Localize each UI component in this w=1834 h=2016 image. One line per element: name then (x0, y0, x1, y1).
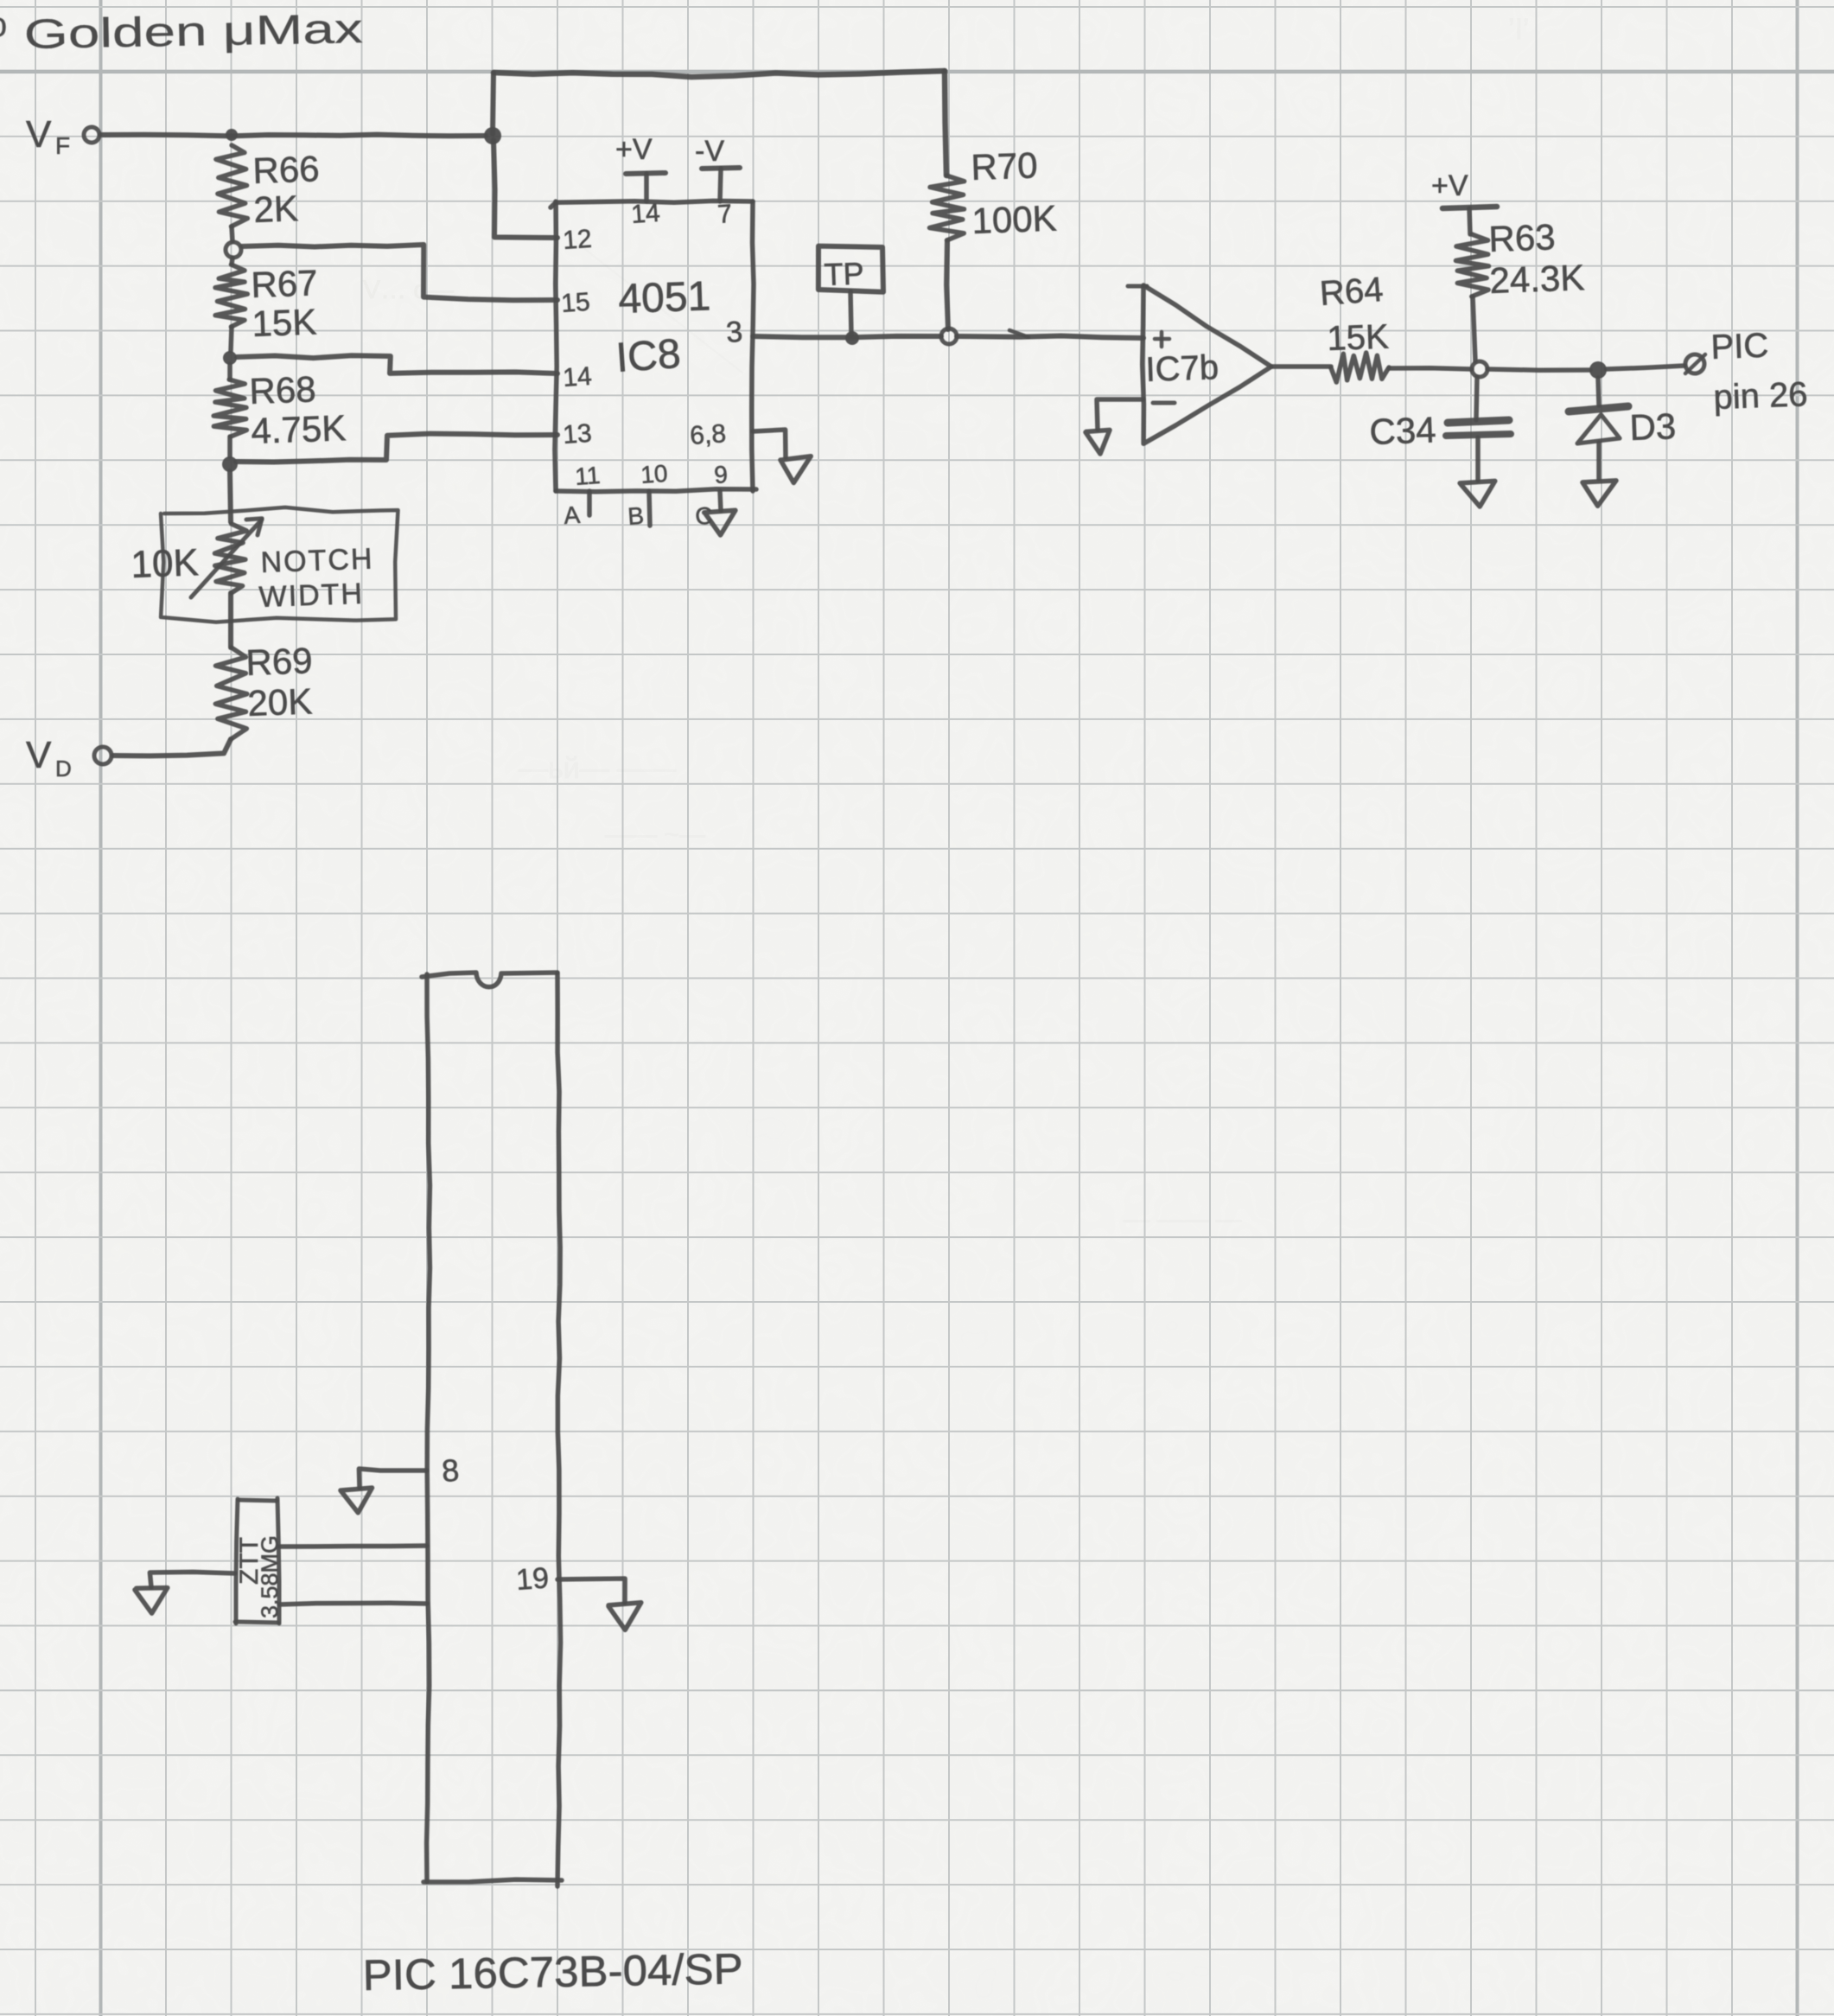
svg-text:’I’: ’I’ (1508, 13, 1530, 46)
capacitor C34 (1476, 377, 1477, 420)
wire riser to top rail (493, 73, 494, 134)
node VF terminal (26, 113, 99, 159)
wire TP stub (850, 291, 851, 335)
svg-text:R69: R69 (245, 640, 314, 683)
svg-text:o: o (0, 6, 7, 44)
node PIC pin 26 terminal (1685, 354, 1704, 373)
+V power pin 14 (615, 133, 665, 201)
wire pin 8 to ground (359, 1469, 427, 1488)
wire minus input to ground (1097, 399, 1143, 430)
svg-text:D3: D3 (1629, 405, 1677, 448)
+V power (R63) (1431, 169, 1497, 234)
svg-text:NOTCH: NOTCH (260, 542, 374, 579)
svg-text:—ьй— ——: —ьй— —— (519, 752, 676, 785)
wire top rail down to R70 (945, 71, 946, 175)
svg-text:TP: TP (824, 255, 864, 292)
svg-text:R67: R67 (251, 262, 319, 305)
ground crystal (135, 1588, 168, 1614)
svg-text:3: 3 (725, 316, 744, 349)
wire R64 to junctions (1389, 368, 1472, 369)
ground IC7b minus input (1086, 430, 1110, 454)
wire pot to R69 (228, 593, 233, 648)
svg-text:10K: 10K (131, 541, 200, 586)
svg-text:F: F (55, 132, 70, 159)
wire junction to pin 13 (236, 434, 557, 463)
IC U: 4051 IC8 box (551, 201, 753, 207)
wire crystal upper pin (279, 1546, 427, 1547)
junction R67/R68 (223, 351, 237, 365)
svg-text:+V: +V (615, 133, 653, 166)
resistor R70 (930, 175, 965, 240)
svg-text:PIC: PIC (1710, 327, 1769, 367)
resistor R63 (1456, 234, 1489, 297)
resistor R67 (232, 258, 232, 265)
resistor R68 (227, 364, 232, 380)
junction TP/pin3 (845, 331, 859, 345)
arrow tick on wire (1009, 330, 1028, 337)
junction node VF/top-rail (blob) (484, 127, 501, 144)
svg-text:R63: R63 (1488, 216, 1557, 259)
svg-text:R70: R70 (971, 144, 1039, 188)
resistor R69 (215, 648, 246, 739)
svg-text:12: 12 (562, 225, 593, 255)
wire pin 19 to ground (557, 1579, 625, 1603)
minus input marker (1153, 401, 1175, 405)
svg-text:20K: 20K (247, 680, 313, 724)
svg-text:C: C (694, 502, 713, 530)
wire VF bus (100, 135, 486, 137)
svg-text:11: 11 (574, 462, 601, 490)
svg-text:D: D (55, 756, 72, 782)
svg-text:9: 9 (713, 461, 729, 488)
svg-text:15: 15 (560, 288, 591, 318)
svg-text:19: 19 (515, 1561, 550, 1597)
junction R66/R67 (open circle) (226, 242, 241, 258)
ground pin 9 (704, 510, 736, 535)
title Golden uMax (0, 6, 363, 58)
crystal Y1 ZTT 3.58MG box (239, 1500, 277, 1501)
svg-text:C34: C34 (1369, 409, 1437, 452)
plus input marker (1155, 337, 1169, 341)
junction R68/pot (222, 456, 238, 472)
svg-text:4.75K: 4.75K (251, 407, 347, 451)
svg-text:V: V (26, 734, 52, 776)
svg-text:R68: R68 (249, 368, 317, 411)
svg-text:— —— —: — —— — (1124, 1205, 1242, 1234)
wire crystal case to ground (150, 1572, 235, 1587)
svg-text:4051: 4051 (618, 273, 712, 322)
ground pins 6,8 (780, 456, 811, 483)
svg-text:WIDTH: WIDTH (258, 577, 365, 614)
svg-text:24.3K: 24.3K (1489, 257, 1585, 301)
IC PIC16C73B box (422, 973, 557, 987)
svg-text:8: 8 (441, 1452, 461, 1489)
junction D3/output (1589, 361, 1607, 379)
wire pin 3 output (753, 336, 941, 337)
ground pin 8 (341, 1488, 373, 1513)
svg-text:IC7b: IC7b (1145, 348, 1219, 389)
svg-text:2K: 2K (253, 188, 299, 230)
svg-text:—— ~—: —— ~— (605, 820, 705, 849)
svg-text:pin 26: pin 26 (1713, 375, 1808, 417)
junction R63/output (open circle) (1472, 361, 1487, 377)
resistor R64 (1331, 353, 1389, 382)
-V power pin 7 (695, 135, 740, 201)
svg-text:15K: 15K (252, 301, 317, 344)
wire junction down to pot (230, 471, 231, 522)
svg-text:R66: R66 (252, 148, 321, 191)
ground C34 (1460, 481, 1495, 507)
junction VF/R66 (226, 129, 238, 141)
potentiometer 10K NOTCH WIDTH (215, 524, 247, 593)
pin 11 stub A (587, 491, 592, 515)
junction R70/pin3 (open circle) (941, 329, 957, 344)
pin 9 stub C (720, 491, 721, 511)
svg-text:B: B (627, 502, 645, 530)
svg-text:13: 13 (562, 419, 593, 450)
svg-text:V: V (26, 113, 52, 156)
wire node A riser down to pin 12 (494, 140, 557, 238)
svg-text:R64: R64 (1319, 271, 1385, 313)
svg-text:PIC 16C73B-04/SP: PIC 16C73B-04/SP (362, 1944, 743, 2000)
potentiometer box (cloud) (161, 507, 398, 622)
wire pins 6,8 to ground (753, 430, 786, 457)
wire top rail (494, 71, 945, 77)
wire junction to IC7b + input (957, 336, 1143, 339)
resistor R66 (216, 145, 248, 226)
ground pin 19 (608, 1603, 641, 1630)
node VD terminal (26, 734, 111, 782)
wire op-amp output (1271, 364, 1331, 369)
svg-text:Golden μMax: Golden μMax (23, 6, 363, 58)
wire junction to pin 15 (242, 245, 557, 300)
pot wiper arrow (191, 520, 262, 597)
svg-text:14: 14 (562, 362, 593, 392)
svg-text:IC8: IC8 (615, 331, 682, 381)
svg-text:-V: -V (695, 135, 724, 168)
op-amp IC7b (1128, 284, 1147, 289)
wire junction to pin 14 (237, 355, 557, 373)
svg-text:100K: 100K (971, 198, 1058, 241)
pin 10 stub B (649, 491, 650, 526)
svg-text:+V: +V (1431, 169, 1468, 202)
svg-text:10: 10 (640, 460, 668, 488)
wire R69 to VD (113, 739, 231, 756)
svg-text:6,8: 6,8 (689, 419, 727, 450)
test point TP box (818, 246, 883, 292)
wire crystal lower pin (279, 1603, 427, 1605)
svg-text:15K: 15K (1327, 318, 1390, 358)
ground D3 (1582, 481, 1616, 506)
diode D3 (1598, 378, 1599, 405)
svg-text:A: A (563, 501, 581, 529)
svg-text:7: 7 (716, 200, 733, 229)
